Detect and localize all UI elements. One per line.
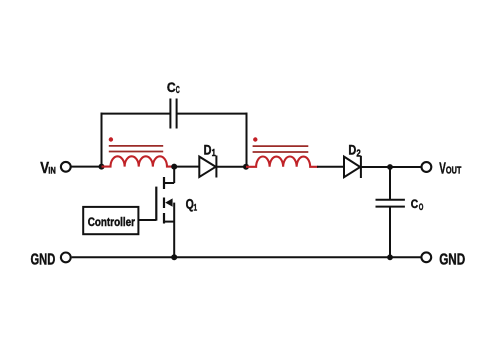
capacitor CO (376, 199, 405, 201)
svg-text:C: C (176, 85, 180, 96)
diode D1 (199, 157, 215, 177)
Q1 channel middle dash (163, 198, 165, 209)
diode D2 (344, 157, 360, 178)
svg-text:IN: IN (48, 164, 56, 175)
terminal GND left (61, 253, 71, 263)
svg-text:O: O (419, 202, 424, 213)
svg-text:2: 2 (356, 149, 361, 160)
svg-text:Controller: Controller (88, 215, 136, 229)
node C junction dot (243, 164, 249, 170)
svg-text:GND: GND (439, 251, 465, 268)
terminal VIN (61, 162, 71, 172)
wire CO down to node E (389, 207, 391, 258)
core bars L1 (109, 145, 163, 147)
core bars L2 (253, 145, 309, 147)
svg-text:1: 1 (212, 148, 216, 159)
svg-text:GND: GND (31, 251, 56, 268)
svg-text:C: C (167, 79, 176, 95)
wire gate lead (138, 219, 156, 221)
node F junction dot (171, 254, 177, 260)
ground bus wire (72, 256, 421, 258)
svg-text:1: 1 (194, 202, 198, 213)
svg-text:D: D (348, 143, 356, 159)
svg-text:OUT: OUT (446, 166, 461, 177)
polarity dot L2 (253, 137, 257, 141)
wire top left to CC (101, 113, 171, 115)
wire L2 to D2 (317, 166, 344, 168)
node E junction dot (387, 254, 393, 260)
wire D1 to node C (216, 166, 246, 168)
wire node D down to CO (389, 167, 391, 200)
Q1 channel top dash (163, 177, 165, 189)
wire VIN to node A (71, 166, 102, 168)
terminal VOUT (422, 162, 432, 172)
wire node A up (101, 113, 103, 167)
wire D2 to VOUT (361, 166, 421, 168)
transistor Q1: drain wire (173, 167, 175, 183)
node A junction dot (99, 164, 105, 170)
Q1 drain lead (164, 182, 175, 184)
terminal GND right (421, 252, 431, 262)
inductor L1 (102, 156, 172, 166)
svg-text:D: D (204, 143, 212, 159)
node B junction dot (171, 164, 177, 170)
capacitor CC (169, 99, 171, 129)
Q1 gate bar (155, 187, 157, 221)
Q1 source wire down (173, 203, 175, 258)
wire down to node C (246, 113, 248, 167)
node D junction dot (387, 164, 393, 170)
Q1 channel bottom dash (163, 213, 165, 224)
Q1 body arrow (165, 198, 172, 206)
polarity dot L1 (109, 137, 113, 141)
wire CC to right drop (177, 113, 248, 115)
wire node B to D1 (174, 166, 199, 168)
svg-text:C: C (411, 197, 419, 211)
inductor L2 (246, 157, 318, 167)
controller box (83, 207, 138, 234)
Q1 source lead (164, 221, 174, 223)
